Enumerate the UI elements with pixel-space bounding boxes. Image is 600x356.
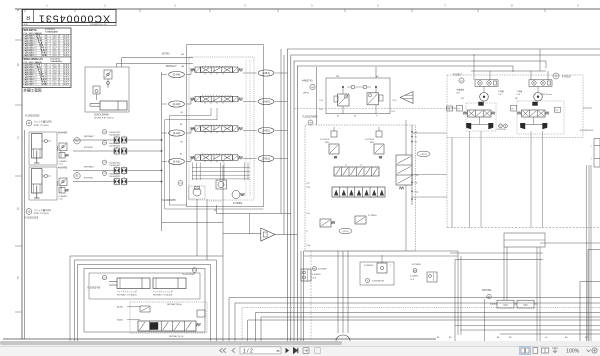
pilot unit body: [326, 78, 390, 114]
valve cluster boundary (left): [466, 103, 496, 131]
brake shoe (right): [488, 123, 493, 129]
outrigger cylinder group 1: [29, 132, 57, 165]
brake shoe (left): [466, 123, 471, 129]
wire oval to trunk: [275, 158, 288, 160]
hose coupler (left): [497, 300, 514, 308]
wire cylinder to coupler row 1: [73, 139, 114, 141]
drain check station A: [301, 269, 311, 281]
callout 13 (left): [459, 78, 464, 83]
wire valve to oval: [243, 130, 257, 132]
port oval 2-B3: [258, 98, 274, 104]
parts table: [23, 28, 72, 88]
inner dashed drains: [245, 60, 247, 197]
drain dashed line: [294, 108, 447, 110]
callout 78: [308, 120, 313, 125]
side bus: [411, 125, 413, 205]
shuttle circles: [351, 85, 355, 89]
pilot check valve: [104, 70, 112, 79]
relief valve 0.36MPa: [59, 153, 65, 159]
return box top: [162, 221, 224, 223]
trunk line T2: [303, 251, 305, 341]
valve body: [201, 96, 233, 102]
jog wire (dashed): [209, 200, 222, 202]
bus junction dot: [161, 181, 162, 182]
solenoid (right): [233, 96, 239, 102]
view mode icon: scrolling: [552, 348, 558, 353]
check ball: [107, 82, 110, 85]
cylinder body: [32, 169, 43, 194]
table data rows block 2: [23, 65, 72, 67]
trunk line T1: [300, 251, 302, 341]
drain check station B 10.9MPa: [360, 262, 394, 285]
junction dot: [411, 131, 412, 132]
wire cylinder to coupler row 2: [73, 150, 114, 152]
retract control valve: [138, 321, 196, 331]
table data rows block 1: [23, 36, 72, 38]
boundary box C: [294, 61, 546, 341]
travel return riser: [451, 138, 453, 228]
callout 74: [102, 160, 106, 164]
travel boundary left drop: [446, 138, 448, 228]
hose coupler symbol 2: [121, 137, 127, 143]
valve ports: [204, 73, 206, 75]
wire quick draw A4: [117, 64, 194, 68]
aux valve small: [197, 310, 205, 317]
wire bus to oval: [162, 161, 168, 163]
wire valve to oval: [243, 158, 257, 160]
bottom pilot valve 1: [320, 219, 331, 227]
pump unit boundary: [305, 125, 416, 251]
outrigger cylinder group 2: [29, 167, 57, 200]
hose coupler symbol 1: [114, 148, 120, 154]
boundary box A: [288, 49, 600, 341]
toolbar snapshot button: [303, 348, 309, 354]
wire cylinder to coupler row 4: [73, 181, 114, 183]
junction dot: [411, 136, 412, 137]
staircase boundary 1: [169, 116, 211, 205]
valve body: [201, 67, 233, 73]
oval 78-1: [339, 228, 352, 234]
junction dot: [411, 198, 412, 199]
pilot feed risers: [316, 67, 318, 125]
drain check (left): [189, 186, 206, 199]
group drop wires: [57, 146, 59, 151]
parking brake (black): [533, 102, 538, 106]
solenoid (left): [195, 96, 201, 102]
main relief valve 10.5MPa: [232, 191, 240, 199]
bus junction dot: [161, 150, 162, 151]
junction dot: [411, 182, 412, 183]
junction dot: [411, 191, 412, 192]
view mode icon: two-page (selected): [520, 347, 531, 355]
valve body: [201, 126, 233, 132]
spring (right): [238, 156, 243, 159]
sheet frame border: [15, 8, 600, 10]
wire cylinder to coupler row 3: [73, 170, 114, 172]
callout 15 (right): [192, 268, 197, 273]
pilot check valve: [59, 178, 67, 186]
small box bottom center-right: [504, 233, 545, 247]
coupler links: [514, 303, 517, 305]
hose coupler symbol 1: [114, 179, 120, 185]
left edge long wire: [24, 130, 26, 339]
callout 74: [102, 130, 106, 134]
labels 12 8 5228198: [499, 124, 503, 128]
left pilot bus: [161, 72, 163, 231]
filter (suction): [261, 228, 275, 241]
spring (left): [191, 98, 196, 101]
port circle: [44, 139, 47, 142]
callout 74: [102, 141, 106, 145]
manifold block 2: [332, 187, 385, 197]
callout 74: [102, 171, 106, 175]
view mode icon: facing: [542, 348, 549, 353]
wire oval to valve: [186, 70, 195, 75]
tank line corner: [235, 303, 600, 341]
toolbar next-page button: [286, 348, 290, 353]
right edge unit box: [594, 139, 600, 168]
tank line corner: [261, 317, 600, 341]
solenoid (right): [233, 67, 239, 73]
corner top-right: [588, 250, 600, 342]
port oval 2-A1: [169, 158, 185, 164]
callout 84: [310, 84, 315, 89]
wire oval to trunk: [275, 101, 288, 103]
tank line corner: [248, 320, 600, 341]
valve body: [201, 155, 233, 161]
motor circle: [534, 93, 543, 102]
spring (right): [238, 68, 243, 71]
retract cylinder (right): [153, 278, 186, 289]
left subsystem boundary 2: [75, 260, 217, 341]
relief valve (quick draw): [93, 86, 100, 94]
valve ports: [204, 160, 206, 162]
callout 13 (valve bank): [178, 181, 183, 186]
side riser: [405, 185, 407, 251]
spring (left): [191, 68, 196, 71]
risers under junction box: [536, 247, 538, 341]
wire P to trunk: [217, 213, 291, 215]
rod end: [34, 162, 40, 164]
filter (pilot return): [400, 92, 413, 104]
wire valve to oval: [243, 101, 257, 103]
wire oval to valve: [186, 129, 195, 134]
drain dashed riser: [310, 251, 312, 341]
solenoid (left): [195, 155, 201, 161]
wire bus to oval: [162, 103, 168, 105]
hose coupler symbol 2: [121, 179, 127, 185]
wire row: [450, 252, 543, 254]
callout 15 (left): [102, 275, 107, 280]
quick draw cylinder: [100, 101, 127, 110]
toolbar prev-page button: [232, 348, 235, 353]
counterbalance valve: [522, 110, 546, 117]
rod end: [34, 197, 40, 199]
retract cylinders inner box: [89, 273, 200, 299]
left subsystem boundary 1: [70, 256, 223, 341]
callout 82: [74, 138, 80, 144]
bottom pilot valve 2: [355, 216, 366, 224]
shuttle box: [475, 80, 498, 87]
oval 78-2: [417, 151, 430, 157]
valve bank outer boundary: [187, 45, 264, 207]
hose coupler symbol 1: [114, 168, 120, 174]
brake T-line: [479, 117, 481, 125]
port oval 2-A2: [169, 130, 185, 136]
valve ports: [204, 102, 206, 104]
hose coupler symbol 2: [121, 168, 127, 174]
travel feed drop: [530, 71, 532, 80]
feed lines from top: [280, 49, 282, 214]
retract cylinder (left): [117, 278, 150, 289]
spring (left): [191, 156, 196, 159]
solenoid (left): [195, 67, 201, 73]
travel feed drop: [473, 71, 475, 80]
riser 81: [484, 299, 486, 341]
boundary box B: [291, 55, 600, 341]
cylinder body: [32, 134, 43, 159]
valve cluster boundary (right): [517, 101, 564, 134]
valve ports: [204, 131, 206, 133]
callout 18 (bottom): [26, 209, 32, 215]
relief valve 0.36MPa: [59, 188, 65, 194]
tank line corner (dashed): [242, 308, 600, 341]
wire rows right: [304, 250, 459, 252]
long rows bottom: [455, 325, 600, 327]
pilot check valve: [59, 143, 67, 151]
port box P2: [511, 105, 517, 111]
pilot relief (center): [216, 180, 227, 189]
spring (right): [238, 127, 243, 130]
brake shoe (left): [520, 123, 525, 129]
pump outlet risers: [337, 251, 339, 333]
svg-text:100%: 100%: [566, 349, 580, 355]
viewer toolbar: [0, 346, 600, 356]
port circle: [44, 174, 47, 177]
travel device outer boundary: [447, 75, 583, 138]
toolbar disabled button: [315, 348, 321, 354]
drain riser: [222, 165, 224, 341]
travel feed drop: [489, 71, 491, 80]
port oval 2-B4: [258, 70, 274, 76]
wire to filter: [223, 233, 261, 235]
callout 82: [74, 173, 80, 179]
valve bank boundary (dashed): [189, 57, 254, 200]
brake shoe (right): [542, 123, 547, 129]
pilot valve (right): [367, 93, 379, 105]
solenoid (left): [195, 126, 201, 132]
callout 18 (top): [26, 120, 32, 126]
port oval 2-B1: [258, 155, 274, 161]
port oval 2-A3: [169, 101, 185, 107]
travel side wires: [446, 107, 457, 109]
filter feed riser: [249, 214, 251, 234]
tank return corner: [455, 260, 543, 342]
port oval 2-A4: [169, 71, 185, 77]
solenoid (right): [233, 126, 239, 132]
staircase boundary 2: [165, 120, 264, 209]
travel drain risers: [469, 131, 471, 228]
side solenoid stack: [396, 155, 412, 185]
hose coupler symbol 2: [121, 148, 127, 154]
group drop wires: [57, 181, 59, 186]
hose coupler (right): [517, 300, 534, 308]
travel feed drop: [547, 71, 549, 80]
bottom-right subsystem dashed top: [447, 227, 600, 229]
spring (left): [191, 127, 196, 130]
risers bottom right: [457, 251, 459, 335]
wire valve to oval: [243, 72, 257, 74]
toolbar first-page button: [220, 348, 227, 353]
shuttle box: [529, 80, 552, 87]
manifold block 1: [334, 167, 379, 176]
brake T-line: [533, 117, 535, 125]
wire oval to trunk: [275, 130, 288, 132]
callout 13 + label 4725517 (right): [553, 73, 559, 79]
tank line corner: [229, 298, 600, 341]
port box P2: [457, 105, 463, 111]
wire filter to tank trunk: [275, 234, 297, 236]
spring (right): [238, 98, 243, 101]
bus junction dot: [161, 170, 162, 171]
port grid wires: [192, 167, 250, 169]
toolbar last-page button: [294, 348, 298, 353]
wire bus to oval: [162, 74, 168, 76]
counterbalance valve: [468, 110, 492, 117]
bus junction dot: [161, 139, 162, 140]
boundary box D: [297, 66, 513, 341]
zoom dropdown arrow: [587, 350, 591, 352]
solenoid (right): [233, 155, 239, 161]
junction dot: [411, 174, 412, 175]
corner right: [580, 282, 600, 342]
junction dot: [411, 141, 412, 142]
view mode icon: single page: [533, 348, 538, 354]
tank line corner: [256, 312, 600, 341]
wire oval to trunk: [275, 72, 288, 74]
wire bus to oval: [162, 132, 168, 134]
callout 81: [487, 294, 491, 298]
left subsystem boundary 3: [78, 265, 211, 342]
pump suction circle (cut): [336, 335, 350, 341]
travel top bus: [471, 70, 546, 72]
horizontal scrollbar: [0, 341, 600, 346]
quick draw unit boundary: [85, 67, 129, 112]
zoom tool icon: [592, 348, 597, 353]
svg-text:1 / 2: 1 / 2: [243, 348, 253, 354]
page number field 1/2: [240, 347, 281, 354]
side taps to travel: [412, 132, 447, 134]
parking brake (black): [479, 102, 484, 106]
retract pilot marks: [140, 306, 150, 312]
PE port boxes: [447, 106, 453, 111]
wire quick draw B4: [122, 58, 193, 68]
right edge risers: [586, 165, 588, 341]
port oval 2-B2: [258, 127, 274, 133]
motor circle: [480, 93, 489, 102]
retract valve boundary (dashed): [130, 302, 207, 333]
title block stamp XC00004531: [23, 10, 117, 23]
wire oval to valve: [186, 158, 195, 162]
wire oval to valve: [186, 99, 195, 104]
left subsystem boundary 4: [84, 269, 205, 333]
hose coupler symbol 1: [114, 137, 120, 143]
tank risers: [196, 199, 198, 256]
pilot valve (left): [338, 94, 350, 106]
